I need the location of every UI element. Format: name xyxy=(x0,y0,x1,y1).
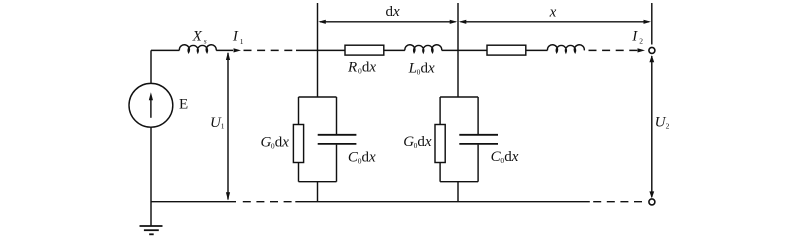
svg-text:dx: dx xyxy=(417,134,432,150)
svg-text:x: x xyxy=(549,4,557,20)
svg-text:1: 1 xyxy=(221,122,225,131)
svg-text:E: E xyxy=(179,97,188,113)
svg-text:dx: dx xyxy=(504,149,519,165)
svg-text:I: I xyxy=(631,28,638,44)
svg-text:dx: dx xyxy=(386,4,401,20)
svg-text:X: X xyxy=(192,29,203,45)
svg-text:dx: dx xyxy=(362,149,377,165)
svg-text:1: 1 xyxy=(240,37,244,46)
svg-text:dx: dx xyxy=(421,60,436,76)
svg-text:G: G xyxy=(403,134,414,150)
svg-text:2: 2 xyxy=(666,121,670,130)
svg-text:s: s xyxy=(204,37,207,46)
svg-text:dx: dx xyxy=(362,60,377,76)
svg-text:dx: dx xyxy=(275,135,290,151)
svg-text:I: I xyxy=(232,29,239,45)
svg-text:2: 2 xyxy=(639,37,643,46)
svg-text:G: G xyxy=(261,135,272,151)
svg-text:L: L xyxy=(408,60,417,76)
svg-text:R: R xyxy=(347,60,357,76)
